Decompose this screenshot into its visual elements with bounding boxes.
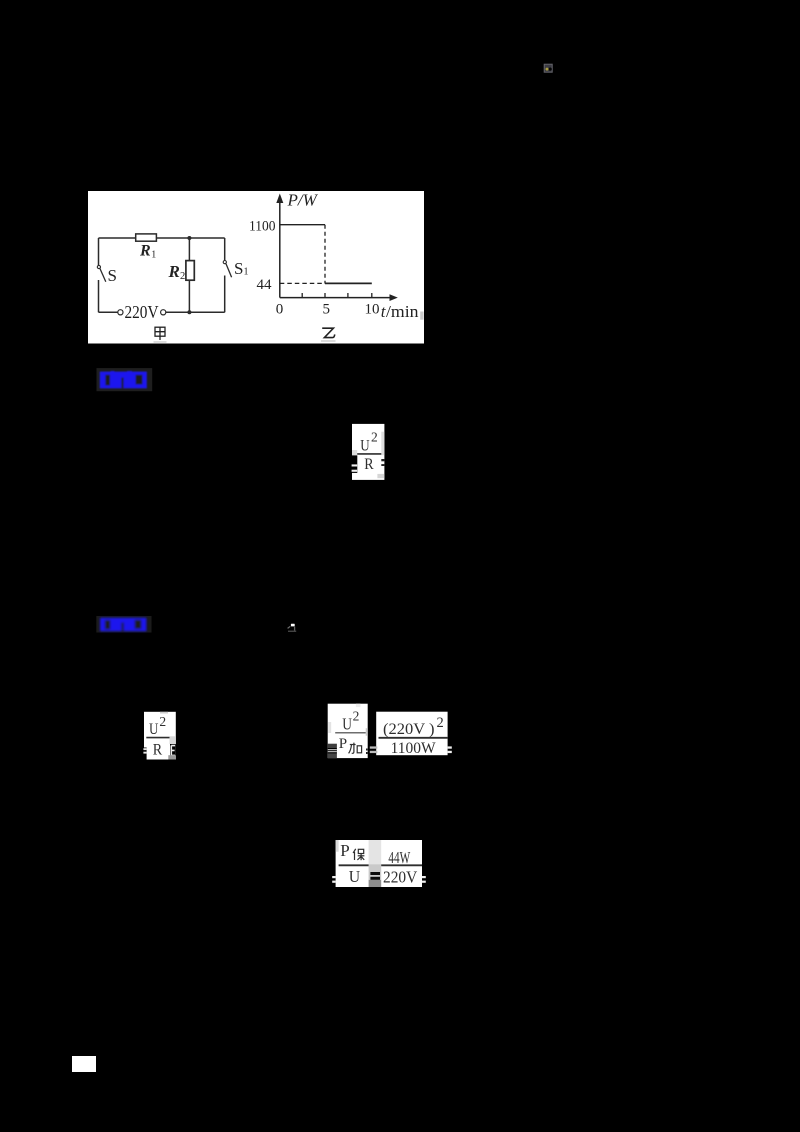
label 甲: [155, 327, 165, 340]
formula image U^2/P加: [328, 704, 368, 758]
svg-text:U: U: [149, 721, 159, 738]
svg-text:2: 2: [437, 715, 444, 731]
svg-text:U: U: [349, 867, 360, 886]
resistor R2: [186, 261, 194, 281]
branch right with switch S1: [224, 238, 226, 260]
left corner marks: [328, 744, 337, 748]
svg-text:R: R: [168, 262, 180, 281]
dashed level 44: [280, 282, 325, 284]
gray mark after t/min: [420, 312, 423, 320]
svg-text:R: R: [139, 243, 151, 260]
resistor R1: [136, 234, 157, 241]
svg-text:10: 10: [365, 302, 380, 318]
svg-text:1100W: 1100W: [391, 740, 436, 757]
formula image P保/U = 44W/220V: [332, 840, 426, 887]
svg-text:44: 44: [257, 277, 273, 293]
branch middle with R2: [188, 238, 190, 312]
white rect bottom-left: [72, 1056, 96, 1072]
switch S: [97, 265, 100, 268]
svg-text:P/W: P/W: [287, 191, 319, 210]
svg-text:U: U: [342, 715, 352, 734]
svg-text:P: P: [340, 841, 349, 860]
svg-text:S: S: [234, 259, 243, 278]
svg-text:1: 1: [244, 267, 249, 278]
svg-text:1100: 1100: [249, 218, 276, 234]
svg-text:2: 2: [371, 430, 378, 445]
svg-text:R: R: [153, 741, 163, 758]
formula image U^2/R (first): [352, 424, 385, 480]
svg-text:R: R: [364, 456, 374, 473]
node bottom: [187, 310, 191, 314]
svg-text:S: S: [108, 266, 117, 285]
wire bottom + 220V source: [99, 311, 118, 313]
wire top: [99, 237, 225, 239]
svg-text:/min: /min: [386, 302, 419, 321]
保 strokes: [353, 849, 364, 860]
underline 乙: [321, 340, 336, 341]
formula image (220V)^2 / 1100W: [370, 712, 452, 757]
node top: [187, 236, 191, 240]
highlight block analysis: [96, 616, 151, 633]
graph Y axis: [279, 200, 281, 298]
svg-text:0: 0: [276, 302, 284, 318]
label 乙: [322, 328, 335, 337]
wire left: [98, 238, 100, 265]
svg-text:1: 1: [151, 250, 156, 261]
svg-text:220V: 220V: [383, 867, 417, 886]
svg-text:44W: 44W: [388, 848, 410, 867]
X axis: [280, 297, 392, 299]
line P=1100: [280, 224, 325, 226]
formula image U^2/R (second): [143, 712, 175, 760]
broken-image icon: [544, 64, 552, 72]
highlight block answer: [97, 368, 153, 391]
svg-text:U: U: [360, 437, 370, 454]
svg-text:2: 2: [180, 271, 185, 282]
line P=44: [325, 282, 372, 284]
dashed drop at t=5: [324, 225, 326, 284]
= between fractions: [370, 872, 380, 875]
加 strokes: [349, 743, 362, 754]
svg-text:2: 2: [353, 709, 360, 724]
svg-text:2: 2: [159, 714, 166, 729]
svg-text:(220V ): (220V ): [383, 721, 435, 738]
svg-text:P: P: [339, 736, 347, 752]
small speck glyph: [288, 624, 297, 632]
underline 甲: [154, 341, 167, 342]
figure panel (circuit 甲 + graph 乙): [88, 191, 424, 344]
svg-text:5: 5: [323, 302, 331, 318]
svg-text:220V: 220V: [125, 302, 159, 322]
ticks: [302, 293, 372, 298]
